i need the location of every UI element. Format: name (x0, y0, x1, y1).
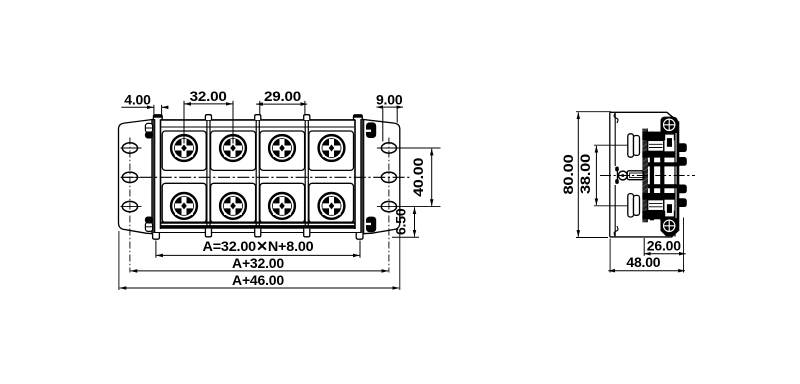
svg-text:6.50: 6.50 (393, 208, 409, 235)
dim 38.00 (595, 146, 597, 175)
dim 80.00 (577, 112, 579, 174)
pockets row 2 (162, 183, 206, 222)
collar slabs bottom screw (642, 193, 674, 200)
right end clip top (366, 122, 376, 138)
center clamp bracket hooks (615, 167, 619, 172)
clamp cavity window top (665, 135, 674, 151)
terminal screw A3 (269, 135, 295, 161)
center screw circle (618, 171, 627, 180)
top mounting screw blob (661, 117, 678, 133)
left flange hole ticks (121, 148, 142, 207)
svg-text:A+46.00: A+46.00 (232, 272, 284, 288)
right end plate (dark bar) (361, 120, 364, 234)
dim 29.00 (256, 103, 281, 105)
inner grid columns (650, 132, 654, 221)
terminal screw B4 (319, 193, 345, 219)
body outer rectangle (161, 119, 356, 121)
right end clip bottom (366, 217, 376, 233)
svg-text:38.00: 38.00 (577, 154, 593, 194)
left end clip top (145, 123, 152, 132)
dim 48.00 (608, 270, 645, 272)
svg-text:4.00: 4.00 (124, 91, 151, 107)
rail grid bands (648, 162, 679, 166)
right outer wall (thick) (677, 122, 680, 231)
inner top line (161, 126, 354, 128)
svg-text:29.00: 29.00 (264, 88, 301, 104)
dim 6.50 (414, 207, 416, 221)
dim 40.00 (431, 149, 433, 177)
collar slabs top screw (642, 132, 674, 141)
top tabs (153, 115, 162, 120)
right flange holes (ellipses) (381, 143, 396, 153)
base line at bottom of body (153, 232, 363, 234)
clamp cavity window bottom (665, 201, 674, 217)
left mounting flange outline (119, 119, 154, 233)
pockets row 1 (162, 131, 206, 170)
hatched wall bar (642, 129, 648, 223)
bottom terminal screw: shank (648, 200, 664, 211)
bottom terminal screw: head plates (628, 194, 634, 217)
flange notches (614, 113, 618, 123)
terminal screw A1 (171, 135, 197, 161)
flange plate (609, 112, 611, 237)
dim A+32.00 (131, 270, 258, 272)
terminal screw B2 (220, 193, 246, 219)
terminal screw B3 (269, 193, 295, 219)
body outline (610, 112, 678, 237)
svg-text:80.00: 80.00 (560, 154, 576, 194)
svg-text:A+32.00: A+32.00 (232, 255, 284, 271)
center dash-dot line (121, 176, 410, 178)
dim 32.00 (184, 103, 208, 105)
dim 26.00 (644, 253, 663, 255)
svg-text:A=32.00✕N+8.00: A=32.00✕N+8.00 (203, 238, 314, 254)
bottom mounting screw blob (661, 218, 678, 236)
left flange holes (ellipses) (122, 143, 137, 153)
dim 4.00 (121, 106, 148, 108)
barrier walls (207, 120, 210, 228)
dim 9.00 (377, 106, 390, 108)
right flange hole center vertical dash-dot (388, 138, 390, 273)
top terminal screw: head plates (628, 134, 634, 157)
terminal screw A2 (220, 135, 246, 161)
top terminal screw: shank (648, 140, 664, 151)
dim A+46.00 (120, 287, 258, 289)
left end plate (dark bar) (152, 120, 155, 234)
right flange hole ticks / 40.00 extension lines (377, 148, 441, 207)
terminal screw A4 (319, 135, 345, 161)
svg-text:48.00: 48.00 (626, 254, 660, 270)
side view center dash-dot (600, 175, 695, 177)
left flange hole center vertical dash-dot (129, 138, 131, 273)
bottom feet (153, 233, 160, 239)
svg-text:9.00: 9.00 (376, 92, 403, 108)
svg-text:32.00: 32.00 (190, 88, 227, 104)
terminal screw B1 (171, 193, 197, 219)
DIN rail tabs (679, 143, 687, 152)
svg-text:26.00: 26.00 (647, 237, 681, 253)
right inner wall (674, 122, 676, 237)
left end clip bottom (145, 222, 152, 231)
right mounting flange outline (363, 119, 400, 233)
center screw barrel (627, 171, 643, 180)
svg-text:40.00: 40.00 (410, 157, 426, 196)
dim A=32xN+8 (156, 254, 258, 256)
